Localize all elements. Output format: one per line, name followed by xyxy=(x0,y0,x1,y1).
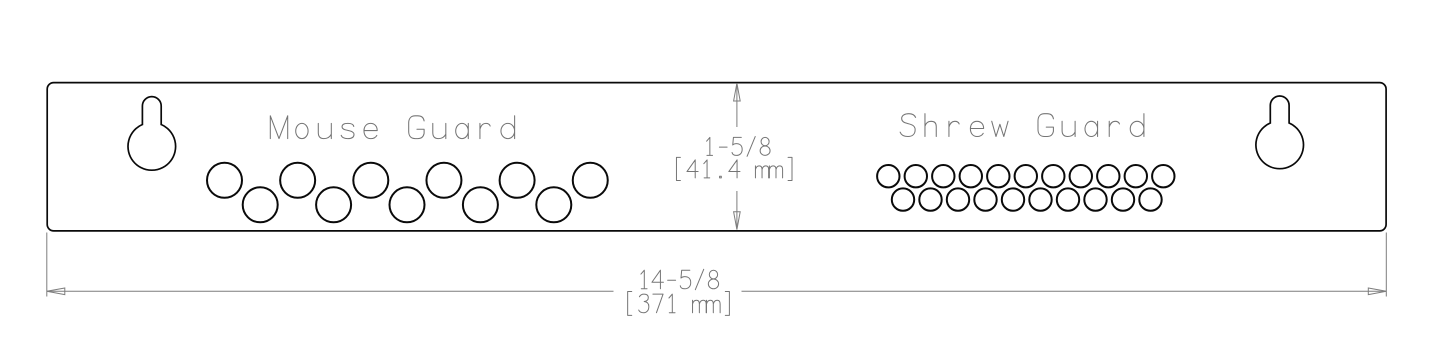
right hole circle 5 xyxy=(987,165,1009,187)
left hole circle 4 xyxy=(426,163,461,198)
vertical dimension line upper segment xyxy=(736,83,738,127)
left hole circle 6 xyxy=(573,163,608,198)
left hole circle 5 xyxy=(500,163,535,198)
right hole circle 3 xyxy=(932,165,954,187)
right hole circle 12 xyxy=(892,188,914,210)
label Mouse Guard xyxy=(270,116,514,139)
right hole circle 4 xyxy=(960,165,982,187)
left keyhole mounting slot xyxy=(128,97,176,171)
left hole circle 11 xyxy=(536,187,571,222)
left hole circle 10 xyxy=(463,187,498,222)
right hole circle 11 xyxy=(1152,165,1174,187)
right hole circle 15 xyxy=(974,188,996,210)
right hole circle 16 xyxy=(1002,188,1024,210)
right extension line xyxy=(1385,233,1387,297)
right hole circle 2 xyxy=(905,165,927,187)
dimension text 1-5/8 xyxy=(707,137,770,157)
vertical dimension arrow down xyxy=(734,212,741,230)
plate outline xyxy=(47,83,1386,231)
right hole circle 14 xyxy=(947,188,969,210)
right hole circle 18 xyxy=(1057,188,1079,210)
left extension line xyxy=(46,233,48,297)
left hole circle 8 xyxy=(316,187,351,222)
right hole circle 20 xyxy=(1112,188,1134,210)
right hole circle 13 xyxy=(919,188,941,210)
left hole circle 9 xyxy=(390,187,425,222)
right keyhole mounting slot xyxy=(1256,96,1304,169)
width dimension arrow right xyxy=(1368,288,1386,295)
dimension text [41.4 mm] xyxy=(676,157,792,180)
right hole circle 7 xyxy=(1042,165,1064,187)
dimension text [371 mm] xyxy=(628,291,730,315)
label Shrew Guard xyxy=(900,114,1144,137)
width dimension line left segment xyxy=(47,290,614,292)
right hole circle 8 xyxy=(1070,165,1092,187)
left hole circle 2 xyxy=(280,163,315,198)
right hole circle 17 xyxy=(1029,188,1051,210)
right hole circle 1 xyxy=(877,165,899,187)
right hole circle 10 xyxy=(1125,165,1147,187)
width dimension line right segment xyxy=(742,290,1387,292)
right hole circle 19 xyxy=(1084,188,1106,210)
right hole circle 9 xyxy=(1097,165,1119,187)
left hole circle 3 xyxy=(353,163,388,198)
dimension text 14-5/8 xyxy=(641,269,719,289)
width dimension arrow left xyxy=(47,288,65,295)
vertical dimension arrow up xyxy=(734,83,741,101)
right hole circle 21 xyxy=(1139,188,1161,210)
left hole circle 1 xyxy=(207,163,242,198)
vertical dimension line lower segment xyxy=(736,191,738,230)
right hole circle 6 xyxy=(1015,165,1037,187)
left hole circle 7 xyxy=(243,187,278,222)
